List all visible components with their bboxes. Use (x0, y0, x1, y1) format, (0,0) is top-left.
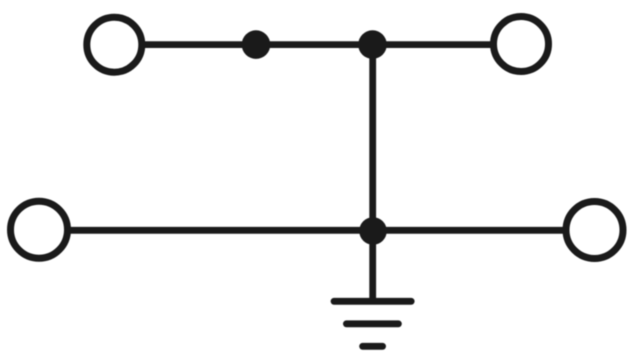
wire top horizontal (114, 41, 521, 48)
terminal circle bottom-left (11, 201, 68, 258)
junction dot top-left node (242, 30, 271, 59)
terminal circle top-right (494, 17, 549, 72)
terminal circle bottom-right (566, 202, 623, 259)
wire bottom horizontal (39, 227, 594, 234)
junction dot top-center node (358, 30, 387, 59)
wire vertical to ground (369, 45, 376, 302)
ground bar 3 (363, 343, 383, 350)
junction dot bottom-center node (359, 217, 387, 245)
ground bar 2 (346, 320, 398, 327)
ground bar 1 (334, 298, 411, 305)
terminal circle top-left (87, 17, 142, 72)
